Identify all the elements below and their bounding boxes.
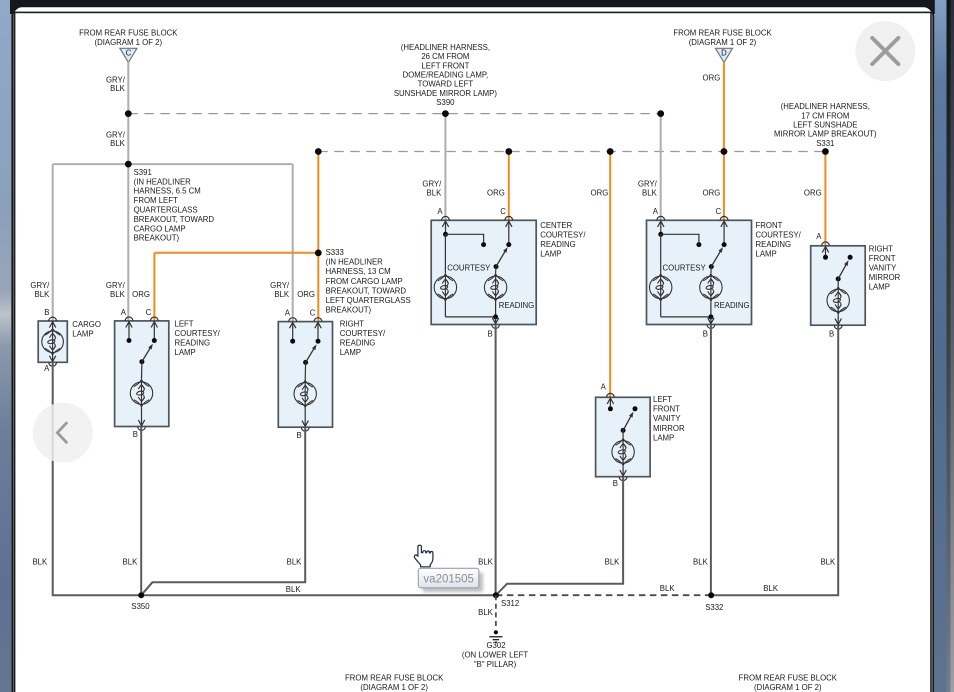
svg-text:C: C <box>310 309 316 318</box>
svg-text:BLK: BLK <box>820 557 836 566</box>
junction dot S333 drop <box>315 148 322 155</box>
svg-text:ORG: ORG <box>591 189 609 198</box>
cargo lamp <box>38 317 67 366</box>
svg-text:C: C <box>126 48 132 57</box>
wire GRY/BLK from S390 down to center courtesy lamp pin A <box>444 114 446 221</box>
wire BLK from cargo lamp pin A down and right to splice S350 <box>53 362 142 595</box>
switch blade <box>711 251 720 267</box>
svg-text:BLK: BLK <box>274 290 290 299</box>
svg-text:ORG: ORG <box>132 290 150 299</box>
splice S390 <box>442 110 449 117</box>
svg-text:BLK: BLK <box>110 290 126 299</box>
svg-text:BLK: BLK <box>605 557 621 566</box>
switch blade <box>142 348 151 362</box>
wire GRY/BLK from dashed line down to front courtesy lamp pin A <box>660 114 662 221</box>
junction dot right vanity drop <box>822 148 829 155</box>
ground G302 <box>489 630 502 642</box>
svg-text:va201505: va201505 <box>423 574 474 586</box>
svg-text:ORG: ORG <box>487 189 505 198</box>
svg-text:S312: S312 <box>501 599 519 608</box>
tooltip va201505 with shadow <box>418 568 483 592</box>
splice S332 <box>708 592 714 598</box>
wire BLK from left courtesy lamp pin B down to S350 <box>140 427 142 596</box>
splice S391 <box>125 161 132 168</box>
wire GRY/BLK down to right courtesy lamp pin A <box>292 164 294 322</box>
wire BLK dashed bus from S312 to S332 <box>496 594 711 596</box>
wire ORG down to right front vanity mirror lamp pin A <box>824 152 826 246</box>
close button <box>855 21 915 81</box>
wire ORG down to center courtesy lamp pin C <box>508 152 510 221</box>
wire GRY/BLK feed from connector C down to left courtesy lamp pin A <box>127 62 129 321</box>
svg-text:B: B <box>487 330 492 339</box>
wire ORG horizontal from S333 to left courtesy lamp pin C <box>154 252 318 254</box>
svg-text:GRY/: GRY/ <box>106 130 126 139</box>
svg-text:BLK: BLK <box>478 557 494 566</box>
svg-text:A: A <box>121 308 127 317</box>
back chevron button <box>33 403 93 463</box>
svg-text:B: B <box>44 308 49 317</box>
svg-text:C: C <box>146 308 152 317</box>
svg-text:B: B <box>296 431 301 440</box>
svg-text:A: A <box>44 364 50 373</box>
svg-text:BLK: BLK <box>427 189 443 198</box>
svg-text:A: A <box>816 232 822 241</box>
junction dot center lamp C drop <box>505 148 512 155</box>
svg-text:GRY/: GRY/ <box>638 180 658 189</box>
svg-text:GRY/: GRY/ <box>106 75 126 84</box>
svg-text:COURTESY: COURTESY <box>447 263 491 272</box>
svg-text:ORG: ORG <box>297 290 315 299</box>
svg-text:D: D <box>721 48 727 57</box>
wire GRY/BLK horizontal from S391 to cargo lamp and right courtesy lamp <box>53 163 293 165</box>
svg-text:C: C <box>716 207 722 216</box>
svg-text:READING: READING <box>714 301 750 310</box>
right front vanity mirror lamp <box>811 242 866 329</box>
right courtesy/reading lamp <box>278 318 332 431</box>
svg-text:BLK: BLK <box>478 608 494 617</box>
svg-text:ORG: ORG <box>804 189 822 198</box>
switch blade <box>496 251 505 267</box>
svg-text:BLK: BLK <box>660 584 676 593</box>
wire ORG down to left front vanity mirror lamp pin A <box>609 152 611 398</box>
connector D from rear fuse block <box>716 48 733 62</box>
svg-text:COURTESY: COURTESY <box>663 263 707 272</box>
right chrome strips <box>935 0 947 692</box>
wire ORG feed from connector D down to front courtesy lamp pin C <box>723 62 725 220</box>
svg-text:BLK: BLK <box>642 189 658 198</box>
svg-text:BLK: BLK <box>110 139 126 148</box>
splice S312 <box>493 592 499 598</box>
svg-text:ORG: ORG <box>703 189 721 198</box>
svg-text:S332: S332 <box>705 603 723 612</box>
svg-text:G302: G302 <box>486 641 505 650</box>
svg-text:BLK: BLK <box>763 584 779 593</box>
hand cursor <box>414 545 433 567</box>
harness dashed line S390 level <box>128 113 660 115</box>
svg-text:BLK: BLK <box>35 290 51 299</box>
svg-text:GRY/: GRY/ <box>422 180 442 189</box>
splice S350 <box>138 592 144 598</box>
connector C from rear fuse block <box>120 48 137 62</box>
wire BLK dashed from S312 down to ground G302 <box>495 595 497 628</box>
harness dashed line S331 level <box>318 151 825 153</box>
wire BLK from right front vanity lamp pin B down and left to S332 <box>711 325 838 595</box>
center courtesy/reading lamp U-center <box>431 216 536 328</box>
switch blade <box>623 416 631 431</box>
svg-text:S350: S350 <box>131 602 150 611</box>
switch blade <box>306 348 315 362</box>
svg-text:BLK: BLK <box>32 557 48 566</box>
svg-text:C: C <box>500 207 506 216</box>
left front vanity mirror lamp <box>596 393 651 480</box>
svg-text:B: B <box>133 430 138 439</box>
wire BLK from front courtesy lamp pin B down to S332 <box>710 325 712 596</box>
svg-text:GRY/: GRY/ <box>106 281 126 290</box>
front courtesy/reading lamp <box>647 216 752 328</box>
svg-text:B: B <box>829 329 834 338</box>
dark header band behind card <box>10 0 936 14</box>
svg-text:ORG: ORG <box>703 73 721 82</box>
svg-text:BLK: BLK <box>287 557 303 566</box>
junction dot left vanity drop <box>607 148 614 155</box>
wire BLK bus from S350 to S312 <box>141 594 496 596</box>
svg-text:READING: READING <box>499 301 535 310</box>
svg-text:BLK: BLK <box>110 84 126 93</box>
svg-text:GRY/: GRY/ <box>30 281 50 290</box>
junction dot front lamp A drop <box>657 110 664 117</box>
splice S333 <box>315 250 322 257</box>
left courtesy/reading lamp <box>115 317 169 430</box>
splice S331 at ORG feed <box>721 148 728 155</box>
wire BLK from right courtesy lamp pin B down and left to S350 <box>141 427 305 595</box>
wire BLK from left front vanity lamp pin B down and left to S312 <box>496 477 623 596</box>
svg-text:A: A <box>285 309 291 318</box>
svg-text:BLK: BLK <box>286 585 302 594</box>
svg-text:B: B <box>703 330 708 339</box>
svg-text:A: A <box>437 207 443 216</box>
junction dot at GRY/BLK feed and dashed line <box>125 110 132 117</box>
svg-text:A: A <box>653 207 659 216</box>
wire ORG down to left courtesy lamp pin C <box>153 253 155 321</box>
wire ORG from S333 down to right courtesy lamp pin C <box>317 253 319 322</box>
left browser chrome strip <box>0 0 11 692</box>
switch blade <box>838 264 846 279</box>
svg-text:A: A <box>601 383 607 392</box>
wire BLK from center courtesy lamp pin B down to S312 <box>495 325 497 596</box>
svg-text:BLK: BLK <box>123 557 139 566</box>
svg-text:B: B <box>613 479 618 488</box>
svg-text:BLK: BLK <box>693 557 709 566</box>
wire GRY/BLK down to cargo lamp pin B <box>52 164 54 321</box>
wire ORG from S331 line down to S333 <box>317 152 319 253</box>
svg-text:GRY/: GRY/ <box>270 281 290 290</box>
